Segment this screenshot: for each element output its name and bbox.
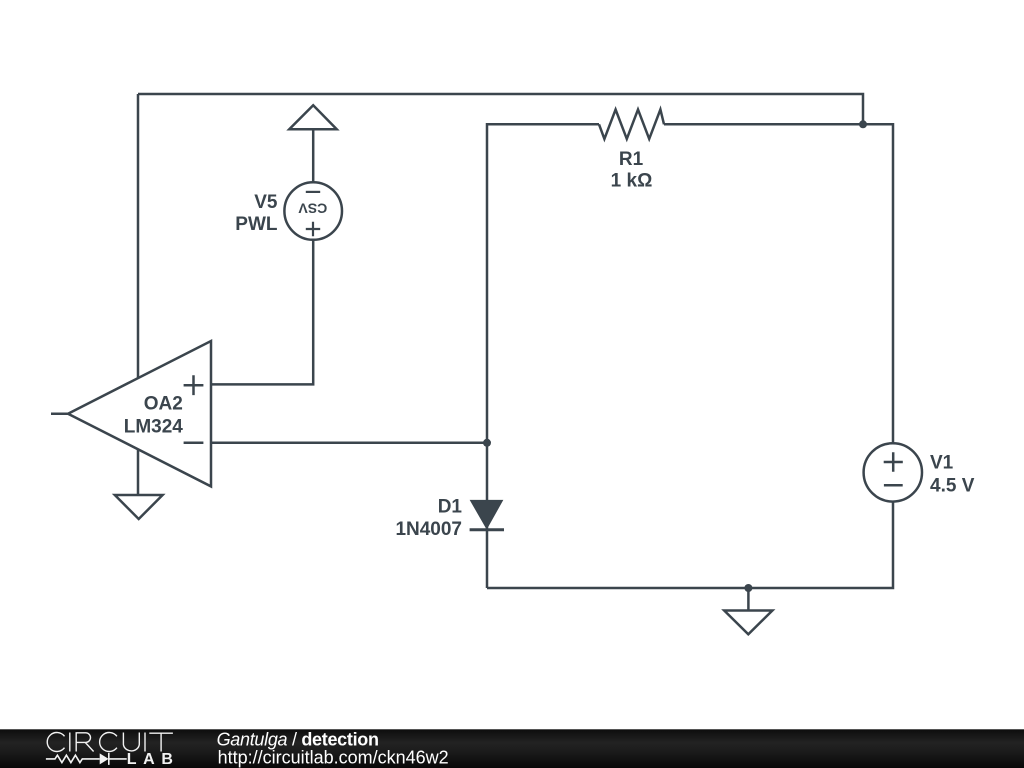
node junction dot bottom ground (744, 584, 752, 592)
svg-text:http://circuitlab.com/ckn46w2: http://circuitlab.com/ckn46w2 (218, 748, 449, 768)
svg-text:R1: R1 (619, 149, 644, 170)
resistor R1 (599, 110, 664, 139)
V5 minus marker (306, 191, 320, 193)
V5 plus marker (306, 222, 320, 236)
wire op-amp inverting input to node A (211, 442, 487, 445)
wire ground stub bottom rail (747, 588, 750, 611)
node A junction dot (inverting input / diode) (483, 439, 491, 447)
voltage source V1 circle (864, 443, 922, 501)
svg-text:PWL: PWL (235, 214, 278, 235)
svg-text:1 kΩ: 1 kΩ (611, 171, 653, 192)
svg-text:4.5 V: 4.5 V (930, 476, 975, 497)
svg-text:V5: V5 (254, 192, 278, 213)
voltage source V5 circle (284, 182, 342, 240)
wire V5 top to supply flag (312, 129, 315, 183)
CircuitLab logo CIRCUIT letters (47, 733, 173, 752)
svg-text:LAB: LAB (127, 751, 180, 768)
op-amp U1 triangle (68, 341, 211, 486)
V1 minus marker (884, 484, 903, 487)
CircuitLab logo resistor-diode underline (46, 753, 127, 765)
node junction dot top right (859, 120, 867, 128)
wire mid rail left segment to R1 (487, 124, 599, 588)
op-amp plus input marker (184, 375, 204, 395)
svg-text:OA2: OA2 (144, 393, 183, 414)
op-amp minus input marker (184, 441, 204, 444)
supply flag above V5 (289, 105, 336, 129)
svg-text:LM324: LM324 (124, 416, 184, 437)
svg-text:V1: V1 (930, 453, 954, 474)
svg-text:1N4007: 1N4007 (395, 519, 462, 540)
wire mid rail right segment from R1 (664, 124, 893, 443)
wire V1 bottom to bottom rail (487, 502, 893, 589)
diode D1 cathode bar (470, 528, 504, 531)
V1 plus marker (884, 452, 903, 471)
svg-text:D1: D1 (438, 497, 463, 518)
wire left rail (op-amp V+ pin to top rail, V- pin to ground) (137, 94, 140, 495)
ground bottom rail (724, 611, 772, 635)
wire top rail from left rail to right corner (138, 94, 863, 124)
ground below op-amp (115, 495, 163, 519)
wire V5 bottom to op-amp non-inverting input (211, 240, 313, 384)
diode D1 triangle (471, 500, 503, 528)
wire op-amp output stub (51, 412, 68, 415)
svg-text:CSV: CSV (298, 200, 327, 216)
